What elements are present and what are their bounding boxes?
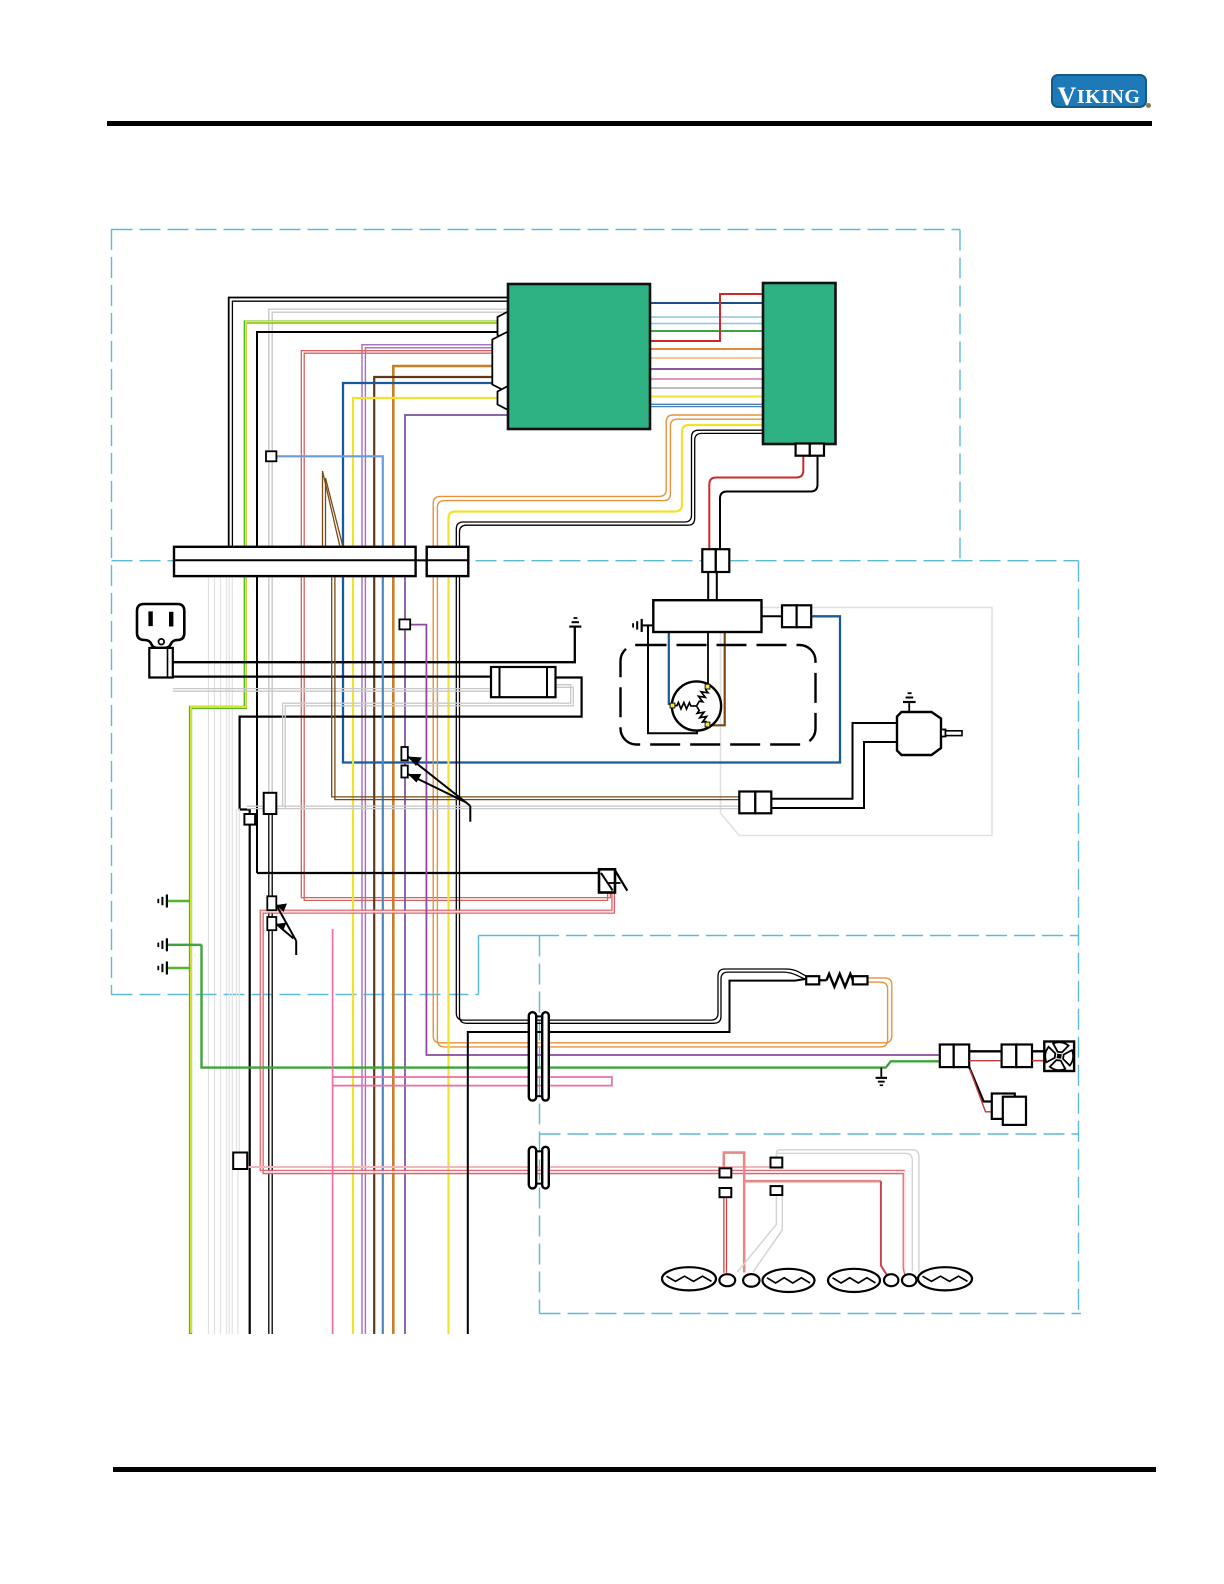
wire black line2 plug to line filter xyxy=(173,675,491,677)
wire purple between boards xyxy=(650,368,763,370)
wire light-purple pair board P1 down page xyxy=(362,345,508,1334)
wire purple square terminal to fan connector xyxy=(410,625,940,1055)
wire white drop to lower squares (gray pair) xyxy=(236,809,238,1153)
run capacitor / overload can xyxy=(897,712,941,755)
terminal square (white drop wire) xyxy=(233,1153,247,1170)
wire black to defrost thermostat xyxy=(257,872,599,874)
wire salmon (double) board P1 to thermostat xyxy=(301,351,610,898)
plug cord body xyxy=(149,648,173,678)
connector J6 (condenser fans) xyxy=(992,1094,1015,1119)
terminal square (cornflower wire) xyxy=(266,451,276,461)
condenser fan F2 hub xyxy=(743,1274,759,1287)
wire yellow between boards xyxy=(650,396,763,398)
wire red J5 to fan icon xyxy=(1032,1060,1044,1062)
wire white W1 (double black) board P1 to terminal strip xyxy=(229,298,508,548)
bottom rule line xyxy=(113,1467,1156,1472)
condenser fan F3 hub xyxy=(884,1274,898,1286)
condenser fan F1 blade xyxy=(662,1267,716,1290)
motor terminal pad bottom xyxy=(705,722,710,727)
condenser fan F4 blade xyxy=(918,1267,972,1290)
dashed enclosure box A top edge xyxy=(112,229,961,231)
connector J3 (overload leads) xyxy=(739,792,755,814)
dashed enclosure box A right edge xyxy=(959,230,961,562)
dashed enclosure box A/B left edge xyxy=(111,229,113,995)
wire sky-blue 1 between boards xyxy=(650,316,763,318)
wire black J4 to J5 xyxy=(969,1050,1001,1052)
chassis ground G2 (compressor) xyxy=(641,619,643,632)
fan harness square S-D xyxy=(771,1186,783,1195)
wire black run capacitor to overload connector (lower) xyxy=(771,742,897,808)
power plug P0 xyxy=(137,604,184,648)
resistor R1 terminal left xyxy=(806,976,819,984)
wire cornflower blue from terminal square xyxy=(276,456,382,547)
wire blue terminal box to motor winding xyxy=(669,632,673,704)
fan harness square S-A xyxy=(720,1168,732,1177)
wire gray diagonal to fan 1 xyxy=(738,1195,777,1272)
connector J1 (compressor plug) xyxy=(702,549,716,572)
dashed enclosure A/B divider xyxy=(112,560,1079,562)
wire red between boards xyxy=(650,294,763,341)
wire red pair square to fan 1 xyxy=(723,1197,725,1273)
wire red J4 to J6 diagonal xyxy=(970,1069,992,1112)
wire white W2 (gray pair) board P1 to spade connector xyxy=(269,309,508,793)
wire green to fan connector xyxy=(202,945,940,1068)
condenser fan F4 hub xyxy=(902,1274,916,1286)
wire white neutral plug to line filter (gray pair) xyxy=(173,688,491,690)
compressor terminal box xyxy=(653,600,761,632)
wire brown terminal box to motor winding xyxy=(710,632,725,725)
wire black stub terminal box to connector xyxy=(762,615,783,617)
wire orange pair board P2 to resistor loop xyxy=(433,415,892,1043)
condenser fan F3 blade xyxy=(828,1269,880,1292)
wire black compressor ground drop to motor shell xyxy=(642,624,654,626)
control board P1 connector bracket lower xyxy=(498,386,509,410)
wire gray loop to fan 4 (outer) xyxy=(776,1150,919,1273)
control board P1 connector bracket middle xyxy=(492,332,508,393)
dashed enclosure right edge (boxes B C D) xyxy=(1078,561,1080,1314)
plug prong slot right xyxy=(170,612,173,626)
line filter FL1 xyxy=(491,667,556,697)
wire yellow board P1 down page xyxy=(353,398,508,1334)
terminal strip TB1 xyxy=(174,547,416,576)
wire black BK2 board P1 to defrost thermostat run xyxy=(257,332,508,873)
dashed enclosure box B bottom edge xyxy=(112,994,479,996)
dashed enclosure box C bottom / D top edge xyxy=(540,1133,1079,1135)
evaporator fan icon xyxy=(1044,1042,1074,1072)
condenser fan F1 hub xyxy=(719,1274,735,1286)
connector J2 (blue lead) xyxy=(782,605,797,627)
wire pink between boards xyxy=(650,378,763,380)
arrow callout 2 xyxy=(408,774,467,803)
motor terminal pad left xyxy=(670,703,675,708)
board P2 output pins xyxy=(796,444,810,456)
wire brown pair terminal strip to overload connector xyxy=(332,576,740,797)
wire black line1 plug to earth ground xyxy=(173,628,575,663)
enclosure box C top edge xyxy=(479,935,539,937)
connector J5 (evap fan) xyxy=(1002,1045,1017,1068)
earth ground G3 (capacitor) xyxy=(903,701,916,703)
wire black J5 to fan icon xyxy=(1032,1050,1044,1052)
motor winding top xyxy=(697,687,709,706)
wire black pair below spade connector down page xyxy=(268,814,270,1334)
motor winding left xyxy=(674,702,697,709)
wire yellow 2 board P2 down page xyxy=(449,425,764,1334)
control board P1 connector bracket upper xyxy=(498,312,509,341)
wire light pink lower run xyxy=(247,1166,770,1168)
Viking logo xyxy=(1051,74,1147,108)
spade terminal pair with arrows (white leads) xyxy=(267,896,276,910)
chassis panel outline (right, gray) xyxy=(721,608,993,836)
wire red J4 to J5 xyxy=(969,1060,1001,1062)
fan harness square S-C xyxy=(771,1158,783,1168)
cable grommet GR2 xyxy=(529,1147,536,1189)
wire green-yellow ground GN/YE from board P1 xyxy=(191,322,509,1334)
chassis ground G6 xyxy=(166,962,168,975)
wire sky-blue 2 between boards xyxy=(650,323,763,325)
condenser fan F2 blade xyxy=(763,1269,815,1292)
wire pink band thermostat to fan grommet and condenser fans xyxy=(262,893,905,1276)
wire white W3 (double black) board P2 to resistor xyxy=(456,430,806,1020)
resistor R1 element xyxy=(819,979,826,981)
wire orange between boards xyxy=(650,348,763,350)
fan harness square S-B xyxy=(720,1188,732,1197)
wire white run to compressor connector (gray pair) xyxy=(247,805,739,807)
chassis panel gray verticals (left harness) xyxy=(208,576,210,1334)
wire brown hairpin loop above terminal strip xyxy=(323,471,341,547)
connector J4 (fan harness) xyxy=(940,1045,954,1068)
arrow callout 4 xyxy=(276,924,293,939)
wire navy between boards xyxy=(650,302,763,304)
wire pink vertical with U branch xyxy=(332,929,334,1334)
wire link TB1 to TB2 xyxy=(416,559,427,561)
earth ground G1 xyxy=(569,626,581,628)
wire salmon horizontal to fan 3 drop xyxy=(744,1180,881,1183)
resistor R1 terminal right xyxy=(853,976,868,984)
wire dark-blue board P1 to compressor connector xyxy=(343,383,840,763)
plug ground hole xyxy=(159,639,165,645)
wire black long harness vertical xyxy=(249,825,251,1334)
wire gray loop to fan 4 (inner) xyxy=(776,1153,912,1271)
wire black filter output loop to lower harness xyxy=(240,678,582,815)
spade terminal pair with arrows (blue lead) xyxy=(401,747,407,760)
wire red board P2 pin to compressor plug xyxy=(709,456,803,550)
wire black cable pair plug to terminal box xyxy=(707,572,709,600)
top rule line xyxy=(107,121,1152,127)
wire gray between boards xyxy=(650,387,763,389)
defrost thermostat S1 xyxy=(599,869,615,892)
logo registered mark xyxy=(1146,103,1151,108)
wire steel blue continuation down page xyxy=(382,547,384,1334)
wire gray diagonal to fan 2 xyxy=(753,1195,782,1272)
terminal square (purple wire) xyxy=(399,619,410,629)
arrow callout tail xyxy=(469,806,471,822)
chassis ground G4 xyxy=(166,895,168,908)
control board P2 xyxy=(763,283,836,444)
spade connector on white wire W2 xyxy=(264,793,277,814)
wire peach between boards xyxy=(650,357,763,359)
enclosure connector vertical (solid cyan) xyxy=(478,936,480,995)
wire dark-brown board P1 down page xyxy=(374,377,508,1334)
wire red drop to fan 3 xyxy=(881,1181,887,1275)
wire black J4 to J6 diagonal xyxy=(969,1067,992,1101)
wire violet board P1 down page xyxy=(405,415,508,1334)
capacitor shaft xyxy=(941,730,946,737)
terminal strip TB2 xyxy=(427,547,469,576)
wire black overload connector to run capacitor (upper) xyxy=(771,723,897,799)
chassis ground G5 xyxy=(166,938,168,951)
dashed enclosure box D bottom edge xyxy=(540,1313,1082,1315)
compressor shell (dashed rounded) xyxy=(621,645,816,745)
compressor motor M1 circle xyxy=(672,681,721,730)
wire black board P2 pin to compressor plug xyxy=(720,456,818,550)
wire green between boards xyxy=(650,330,763,332)
earth ground G7 (fan circuit) xyxy=(880,1068,882,1077)
spade connector on black harness wire xyxy=(244,814,255,825)
plug prong slot left xyxy=(149,612,152,626)
arrow callout tail 2 xyxy=(295,941,297,955)
arrow callout 1 xyxy=(408,757,471,806)
wire steel-blue pair between boards xyxy=(650,403,763,405)
wire black single to resistor (lower) xyxy=(468,979,807,1334)
arrow callout 3 xyxy=(276,905,296,941)
motor winding bottom xyxy=(697,706,708,724)
wire black terminal box to motor winding xyxy=(707,632,709,685)
motor terminal pad top xyxy=(705,684,710,689)
wire white filter output loop (gray pair) xyxy=(283,685,571,807)
control board P1 xyxy=(508,284,650,429)
dashed enclosure box C/D left edge xyxy=(539,936,541,1314)
wire white W1 continuation below strip (gray pair) xyxy=(228,576,230,1334)
cable grommet GR1 xyxy=(529,1012,536,1100)
wire salmon jumper square to fan 2 xyxy=(724,1153,744,1273)
wire ochre board P1 down page xyxy=(393,366,508,1334)
